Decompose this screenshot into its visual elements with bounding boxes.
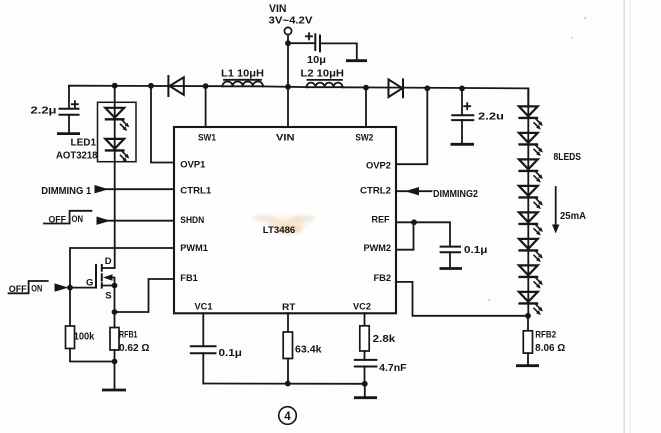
LED string diode 4 (518, 186, 543, 209)
svg-text:RT: RT (282, 301, 296, 312)
arrow DIMMING1 (95, 185, 109, 193)
LED string diode 1 (518, 106, 543, 129)
resistor RT 63.4k (283, 332, 322, 384)
svg-text:CTRL1: CTRL1 (180, 185, 211, 196)
top bus wire right (343, 87, 529, 88)
svg-text:LED1: LED1 (71, 138, 97, 149)
wire OVP1 (151, 86, 174, 163)
step symbol OFF/ON (PWM1) (9, 281, 48, 294)
svg-text:DIMMING2: DIMMING2 (433, 189, 478, 200)
svg-text:2.2μ: 2.2μ (31, 106, 57, 117)
capacitor 10u (input) (306, 33, 326, 66)
resistor 2.8k (360, 326, 396, 359)
svg-text:4: 4 (284, 411, 291, 423)
node output cap branch (459, 86, 465, 92)
svg-text:RFB2: RFB2 (535, 330, 556, 341)
svg-text:FB2: FB2 (374, 272, 392, 283)
node VC2 bottom (362, 381, 368, 387)
svg-text:2.2u: 2.2u (478, 112, 504, 123)
wire OVP2 (396, 88, 427, 164)
LED D-B in module (105, 139, 130, 162)
top bus wire left (69, 85, 223, 88)
svg-text:3V~4.2V: 3V~4.2V (269, 16, 313, 27)
wire VIN vertical to bus (287, 35, 289, 127)
svg-text:8LEDS: 8LEDS (554, 152, 582, 163)
resistor 100k (66, 288, 115, 362)
svg-text:0.62 Ω: 0.62 Ω (119, 343, 150, 354)
resistor RFB2 (523, 316, 565, 365)
capacitor 2.2u left (31, 86, 79, 133)
node OVP2 branch (424, 85, 430, 91)
wire C-in to ground (321, 43, 357, 59)
wire VC2 (364, 313, 366, 326)
step symbol OFF/ON (SHDN) (44, 211, 91, 225)
svg-text:VIN: VIN (276, 132, 295, 143)
svg-text:SW2: SW2 (355, 132, 373, 143)
svg-text:4.7nF: 4.7nF (379, 363, 407, 374)
wire bus through LED1 module down to MOSFET drain (114, 86, 116, 268)
LED string diode 3 (518, 159, 543, 182)
inductor L2 (301, 69, 345, 88)
ground (2.2u left) (57, 132, 80, 135)
capacitor 0.1u (VC1) (191, 346, 242, 359)
node OVP1 branch (148, 83, 154, 89)
wire L1 to L2 (263, 85, 307, 88)
node VIN input junction (285, 40, 291, 46)
net label VIN (269, 3, 313, 27)
node FB1/source (112, 309, 118, 315)
resistor RFB1 (110, 312, 150, 389)
LED string diode 6 (518, 239, 543, 262)
scan specks (488, 17, 587, 302)
arrow CTRL2 input (405, 187, 419, 195)
figure number circled 4 (279, 407, 297, 425)
LED string diode 2 (518, 133, 543, 156)
ground (10u cap) (346, 59, 367, 62)
svg-text:OVP2: OVP2 (366, 160, 391, 171)
watermark smudge (252, 215, 315, 235)
arrow SHDN input (97, 217, 111, 225)
wire FB1 (115, 279, 175, 312)
arrow PWM1 input (55, 283, 69, 291)
wire node to C-in (288, 42, 314, 44)
svg-text:VC2: VC2 (353, 301, 371, 312)
svg-text:ON: ON (31, 283, 42, 293)
svg-text:100k: 100k (74, 332, 95, 343)
wire SW1 (205, 86, 207, 127)
svg-text:10μ: 10μ (307, 55, 326, 66)
ground (0.1u REF) (440, 267, 463, 270)
node gate junction (67, 285, 73, 291)
wire bus corner into LED string (527, 88, 529, 106)
svg-text:VC1: VC1 (195, 301, 213, 312)
IC U1 LT3486 body (174, 127, 396, 313)
LED module LED1 AOT3218 box (56, 102, 136, 161)
svg-text:DIMMING 1: DIMMING 1 (41, 186, 91, 197)
wire PWM1 (70, 248, 174, 288)
ground (2.2u right) (451, 143, 475, 146)
wire CTRL2 (396, 190, 432, 192)
svg-text:PWM1: PWM1 (180, 242, 208, 253)
node LED string / FB2 (525, 313, 531, 319)
svg-text:REF: REF (372, 214, 390, 225)
svg-text:PWM2: PWM2 (364, 242, 392, 253)
node RT bottom (285, 381, 291, 387)
bottom bus wire (203, 383, 365, 385)
wire SW2 (365, 88, 367, 127)
ground (RFB1) (102, 389, 126, 392)
wire REF (396, 222, 450, 245)
diode D1 (168, 76, 183, 96)
node LED1 top (112, 83, 118, 89)
node source junction (112, 283, 118, 289)
svg-text:CTRL2: CTRL2 (360, 185, 391, 196)
LED D-A in module (105, 108, 130, 131)
svg-text:FB1: FB1 (180, 272, 198, 283)
capacitor 0.1u (REF) (441, 245, 488, 267)
node RFB1/100k junction (112, 359, 118, 365)
scan artifact vertical line right edge (624, 0, 630, 433)
svg-text:VIN: VIN (269, 3, 287, 15)
wire SHDN (108, 220, 174, 222)
svg-text:25mA: 25mA (560, 211, 586, 222)
wire VC1 (202, 313, 204, 345)
svg-text:SW1: SW1 (198, 132, 216, 143)
node SW1 branch (203, 83, 209, 89)
node VIN bus junction (285, 84, 291, 90)
wire FB2 (396, 282, 528, 316)
wire LED string vertical (527, 88, 529, 315)
svg-text:2.8k: 2.8k (373, 334, 396, 345)
MOSFET Q1 (70, 256, 115, 312)
capacitor 4.7nF (355, 360, 407, 384)
inductor L1 (221, 69, 264, 87)
LED string diode 8 (518, 292, 543, 315)
svg-text:AOT3218: AOT3218 (56, 151, 98, 162)
wire CTRL1 (106, 188, 174, 190)
svg-text:OFF: OFF (9, 284, 27, 294)
wire PWM2 (396, 222, 414, 249)
terminal VIN (open circle) (284, 27, 291, 34)
svg-text:S: S (105, 291, 111, 302)
ground (RFB2) (516, 364, 539, 367)
node SW2 branch (363, 85, 369, 91)
LED string diode 5 (518, 212, 543, 235)
svg-text:RFB1: RFB1 (119, 330, 138, 341)
capacitor 2.2u right (452, 88, 504, 143)
svg-text:L2 10μH: L2 10μH (301, 69, 345, 80)
svg-text:0.1μ: 0.1μ (464, 245, 488, 256)
svg-text:LT3486: LT3486 (263, 225, 296, 235)
ground (VC2 branch) (354, 396, 377, 399)
svg-text:L1 10μH: L1 10μH (221, 69, 264, 80)
svg-text:ON: ON (72, 214, 84, 224)
svg-text:63.4k: 63.4k (295, 345, 322, 356)
svg-text:D: D (105, 256, 112, 267)
wire to ground (VC2) (364, 384, 366, 397)
node REF junction (411, 219, 417, 225)
current arrow 25mA (552, 187, 586, 234)
wire RT (287, 313, 289, 332)
diode D2 (389, 79, 404, 97)
svg-text:OVP1: OVP1 (180, 159, 205, 170)
svg-text:0.1μ: 0.1μ (219, 348, 243, 359)
LED string diode 7 (518, 265, 543, 288)
svg-text:8.06 Ω: 8.06 Ω (535, 343, 565, 354)
svg-text:SHDN: SHDN (180, 214, 204, 225)
wire VC1 cap to bottom bus (202, 353, 204, 383)
